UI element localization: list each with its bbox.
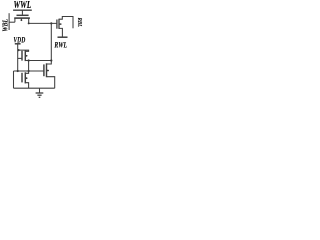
wire WBL vertical [8, 13, 10, 30]
transistor M3 gate bar [21, 51, 23, 61]
junction dot gate net mid [28, 70, 30, 72]
ground bar 3 [39, 96, 41, 98]
transistor M5 gate bar [43, 64, 45, 76]
transistor M2 drain wire [59, 17, 73, 20]
wire left link down [13, 71, 15, 88]
label WBL [2, 19, 10, 32]
transistor M4 channel bar [24, 72, 26, 83]
bulk dot M4 [26, 77, 28, 79]
transistor M2 read gate bar [56, 20, 58, 29]
transistor M1 gate bar [17, 14, 29, 16]
wire storage node SN vertical drop [50, 23, 52, 60]
svg-text:WWL: WWL [13, 0, 31, 10]
transistor M3 bulk tap [25, 55, 27, 57]
label WWL [13, 0, 31, 10]
svg-text:WBL: WBL [2, 19, 10, 32]
junction dot source-SN left [28, 59, 30, 61]
transistor M2 channel bar [58, 19, 60, 29]
transistor M3 source wire to storage node [25, 60, 51, 62]
transistor M1 left leg [14, 18, 16, 22]
wire storage node SN horizontal [29, 22, 57, 24]
junction dot source-SN right [50, 59, 52, 61]
wire WBL stub [9, 21, 15, 23]
transistor M1 channel bar [14, 17, 30, 19]
ground bar 1 [36, 92, 44, 94]
wire VDD to M3 top [18, 50, 29, 51]
label RWL [54, 39, 68, 50]
bulk dot M3 [26, 55, 28, 57]
wire M3 source down link [28, 61, 30, 72]
transistor M2 source wire [59, 28, 62, 37]
RWL supply bar [58, 36, 68, 38]
wire VDD vertical line [17, 44, 19, 71]
wire gate net horizontal [14, 70, 44, 72]
transistor M4 bulk tap [25, 77, 27, 79]
wire ground rail [14, 87, 55, 89]
junction dot SN [50, 22, 52, 24]
junction dot M1 drain [28, 22, 30, 24]
transistor M5 bulk tap [47, 70, 49, 72]
junction dot VDD [17, 49, 19, 51]
bulk dot M2 [60, 23, 62, 25]
junction dot gate net left [17, 70, 19, 72]
VDD supply bar [15, 43, 21, 45]
ground bar 2 [37, 94, 41, 96]
transistor M4 drain wire up [25, 71, 28, 73]
transistor M4 source wire down [25, 83, 28, 89]
transistor M1 right leg [28, 18, 30, 23]
label VDD [13, 34, 25, 45]
svg-text:RWL: RWL [54, 39, 68, 50]
transistor M5 drain wire [47, 61, 52, 65]
bulk dot M1 [21, 19, 23, 21]
ground stem [39, 88, 41, 93]
wire WWL horizontal [13, 9, 32, 11]
wire RBL vertical [72, 16, 74, 28]
transistor M3 channel bar [24, 50, 26, 61]
label RBL [76, 17, 82, 28]
svg-text:RBL: RBL [76, 17, 82, 28]
transistor M2 bulk tap [59, 23, 62, 25]
bulk dot M5 [47, 70, 49, 72]
transistor M5 source wire down [47, 77, 55, 89]
transistor M4 gate bar [21, 73, 23, 83]
transistor M1 write (gate stem) [21, 10, 23, 15]
svg-text:VDD: VDD [13, 34, 25, 45]
transistor M5 channel bar [46, 63, 48, 77]
transistor M1 bulk tap [20, 18, 22, 21]
transistor M3 gate stub [18, 57, 22, 59]
